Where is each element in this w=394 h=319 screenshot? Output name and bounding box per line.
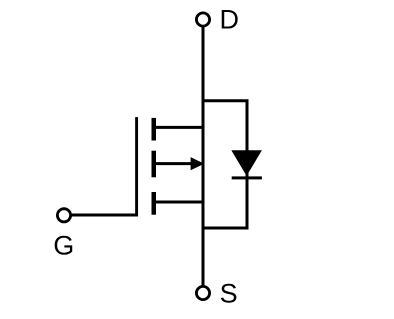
svg-text:D: D [220,5,240,35]
svg-text:G: G [53,230,74,260]
svg-text:S: S [220,279,238,309]
